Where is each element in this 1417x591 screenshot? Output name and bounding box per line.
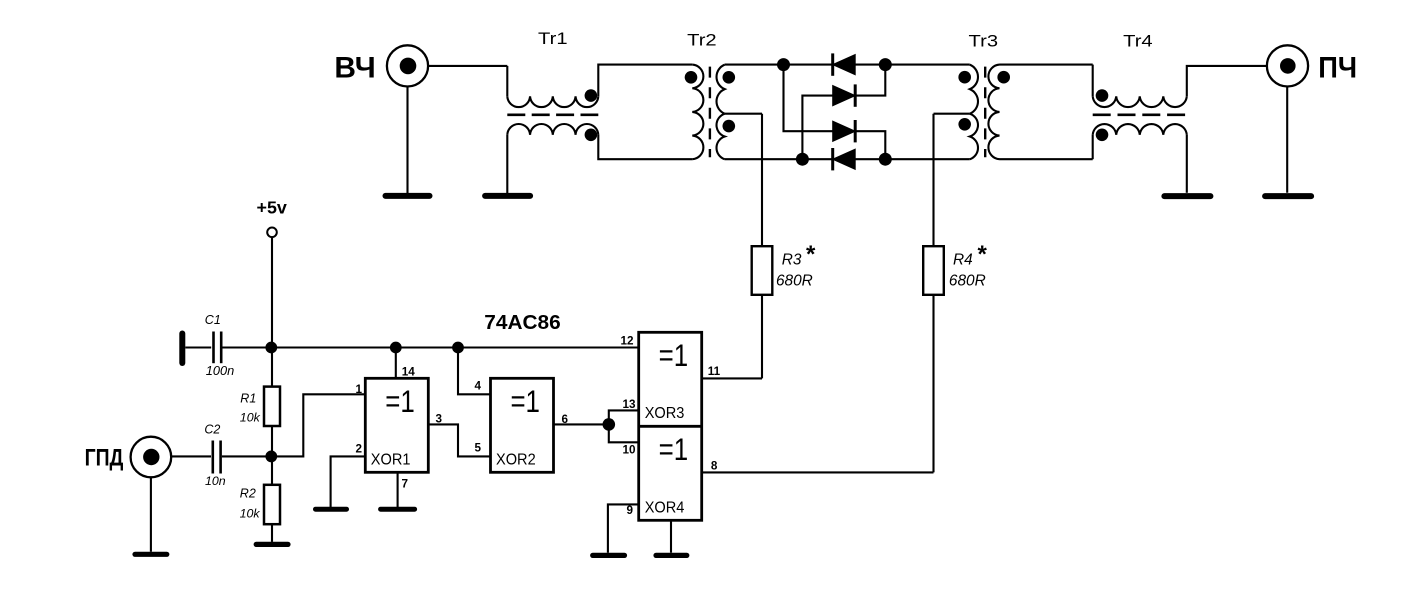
wire Tr3 center tap to R4 (934, 113, 970, 115)
svg-text:11: 11 (708, 365, 721, 378)
wire ГПД connector to ground (150, 477, 152, 552)
svg-text:Tr2: Tr2 (687, 32, 717, 50)
Tr3 phase dot left-top (958, 71, 971, 84)
wire Tr4 bottom to ground (1186, 135, 1188, 193)
wire Tr1 to Tr2 bottom (598, 135, 692, 159)
wire rail to R1 (271, 348, 273, 387)
output connector ПЧ (IF out) (1267, 45, 1308, 86)
wire pin 2 to ground (331, 456, 366, 507)
svg-text:=1: =1 (510, 383, 540, 419)
svg-text:C1: C1 (205, 313, 221, 327)
transformer Tr3 left top winding (970, 65, 978, 114)
capacitor C1 (212, 332, 215, 364)
wire C1 to rail (223, 346, 272, 348)
svg-text:=1: =1 (385, 383, 415, 419)
diode D4 (bottom, pointing left) (833, 149, 856, 169)
Tr4 phase dot top (1096, 89, 1109, 102)
wire stub to C1 (185, 346, 211, 348)
node pin6/13/10 (603, 418, 616, 431)
node rail pin 14 tap (390, 342, 402, 354)
node C2/R1/R2 (265, 451, 277, 463)
op-gate XOR2 (491, 378, 554, 472)
svg-text:1: 1 (355, 383, 362, 396)
wire node to R2 (271, 456, 273, 484)
wire XOR1 pin 3 to XOR2 pin 5 (428, 424, 490, 456)
wire pin 7 to ground (397, 472, 399, 507)
transformer Tr1 core (507, 113, 598, 116)
resistor R3 (752, 246, 773, 295)
ground (pin 7) (381, 507, 415, 512)
wire Tr3 to Tr4 top (1000, 64, 1093, 66)
transformer Tr2 left winding (692, 65, 703, 160)
op-gate XOR3/XOR4 block (639, 332, 702, 520)
svg-text:10k: 10k (240, 507, 261, 521)
op-gate XOR1 (365, 378, 428, 472)
wire R4 to XOR4 output pin 8 (932, 295, 934, 473)
ground (ВЧ) (386, 193, 430, 199)
svg-text:=1: =1 (659, 431, 689, 467)
wire Tr1 to Tr2 top (598, 65, 692, 97)
ground (ПЧ) (1265, 193, 1311, 199)
resistor R1 (264, 387, 280, 426)
wire ВЧ to Tr1 top winding (428, 65, 507, 67)
svg-text:Tr4: Tr4 (1123, 33, 1153, 51)
svg-text:ГПД: ГПД (85, 444, 124, 471)
wire rail to XOR2 pin 4 (458, 348, 491, 395)
transformer Tr1 top winding (507, 96, 598, 107)
input connector ГПД (LO in) (131, 437, 172, 478)
wire Tr3 to Tr4 bottom (1000, 158, 1093, 160)
wire R2 to ground (271, 524, 273, 542)
terminal +5v (267, 228, 277, 238)
transformer Tr3 right winding (988, 65, 999, 160)
wire bottom Tr2 to Tr3 (diode row bottom) (725, 158, 970, 160)
svg-text:Tr1: Tr1 (538, 30, 568, 48)
op-gate divider XOR3/XOR4 (639, 425, 702, 428)
capacitor C2 (212, 441, 215, 474)
wire XOR4 to ground (670, 520, 672, 552)
wire Tr4 top to ПЧ (1187, 66, 1267, 96)
svg-text:680R: 680R (949, 272, 986, 289)
transformer Tr4 top winding (1093, 96, 1187, 107)
diode D1 (top, pointing left) (833, 55, 856, 75)
Tr4 phase dot bottom (1096, 129, 1109, 142)
svg-text:ВЧ: ВЧ (334, 51, 375, 84)
wire ВЧ connector to ground (406, 86, 408, 193)
svg-text:100n: 100n (206, 363, 234, 378)
wire ПЧ connector to ground (1286, 87, 1288, 193)
svg-text:8: 8 (711, 460, 718, 473)
svg-text:9: 9 (626, 504, 633, 517)
svg-text:XOR4: XOR4 (645, 499, 685, 516)
wire rail to pin 14 (395, 348, 397, 379)
svg-text:14: 14 (402, 366, 416, 379)
diode D3 (pointing right) (833, 121, 856, 141)
wire +5v to rail (271, 237, 273, 347)
Tr2 phase dot right-top (723, 71, 736, 84)
svg-text:R2: R2 (240, 486, 256, 500)
input connector BЧ (RF in) (387, 45, 428, 86)
transformer Tr4 core (1093, 113, 1187, 116)
transformer Tr2 right top winding (717, 65, 725, 114)
Tr2 phase dot left (685, 71, 698, 84)
Tr1 phase dot bottom (585, 129, 598, 142)
svg-text:*: * (806, 241, 816, 268)
svg-text:74AC86: 74AC86 (484, 311, 560, 334)
svg-text:C2: C2 (204, 423, 220, 437)
svg-text:5: 5 (474, 442, 481, 455)
node bottom-left (796, 153, 809, 166)
transformer Tr1 bottom winding (507, 124, 598, 135)
node rail pin 4 tap (452, 342, 464, 354)
svg-text:R3: R3 (782, 252, 802, 269)
svg-text:7: 7 (402, 478, 409, 491)
svg-text:10: 10 (622, 443, 636, 456)
ground (R2) (256, 542, 288, 547)
wire R1 to C2 node (271, 426, 273, 456)
svg-text:680R: 680R (776, 272, 813, 289)
svg-text:R4: R4 (953, 252, 973, 269)
capacitor C1 end stub (179, 334, 185, 364)
transformer Tr3 core (984, 67, 986, 158)
svg-text:2: 2 (355, 443, 362, 456)
ground (pin 2) (316, 507, 347, 512)
ground (Tr1) (485, 193, 530, 199)
wire node to pins 13 and 10 (609, 410, 639, 442)
node bottom-right (879, 153, 892, 166)
svg-text:12: 12 (620, 334, 634, 347)
svg-text:XOR2: XOR2 (496, 451, 536, 468)
svg-text:4: 4 (474, 379, 481, 392)
transformer Tr3 left bottom winding (970, 114, 978, 160)
wire node to XOR1 pin 1 (271, 394, 365, 456)
svg-text:13: 13 (622, 398, 636, 411)
wire Tr2 center tap to R3 (725, 113, 762, 115)
ground (pin 9) (593, 553, 625, 558)
ground (ГПД) (135, 552, 167, 557)
svg-text:10n: 10n (205, 474, 226, 488)
ground (XOR4) (656, 553, 687, 558)
wire Tr1 bottom winding to ground (506, 135, 508, 193)
svg-text:10k: 10k (240, 411, 261, 425)
Tr3 phase dot right (997, 71, 1010, 84)
Tr1 phase dot top (585, 89, 598, 102)
svg-text:R1: R1 (240, 391, 256, 405)
transformer Tr2 core (709, 67, 711, 158)
transformer Tr2 right bottom winding (717, 114, 725, 160)
node rail +5v tap (265, 342, 277, 354)
diode D2 leads (802, 96, 832, 160)
svg-text:Tr3: Tr3 (969, 33, 999, 51)
svg-text:ПЧ: ПЧ (1318, 51, 1357, 84)
Tr3 phase dot left-bottom (958, 118, 971, 131)
svg-text:*: * (978, 241, 988, 268)
resistor R4 (923, 246, 944, 295)
wire R3 to XOR3 output pin 11 (761, 295, 763, 379)
ground (Tr4) (1164, 193, 1210, 199)
svg-text:+5v: +5v (257, 198, 288, 218)
svg-text:=1: =1 (659, 337, 689, 373)
wire XOR2 pin 6 to node (554, 423, 609, 425)
wire ГПД to C2 (171, 455, 211, 457)
Tr2 phase dot right-bottom (723, 120, 736, 133)
transformer Tr4 bottom winding (1093, 124, 1187, 135)
resistor R2 (264, 485, 280, 524)
supply rail (+5v) to XOR3 pin 12 (271, 346, 638, 348)
wire C2 to node (222, 455, 271, 457)
node top-right (879, 58, 892, 71)
diode D3 leads (784, 65, 833, 132)
svg-text:XOR1: XOR1 (371, 451, 411, 468)
diode D2 (pointing right) (833, 86, 856, 106)
wire top Tr2 to Tr3 (diode row top) (725, 64, 970, 66)
wire pin 9 to ground (608, 504, 639, 552)
svg-text:XOR3: XOR3 (645, 405, 685, 422)
node top-left (777, 58, 790, 71)
